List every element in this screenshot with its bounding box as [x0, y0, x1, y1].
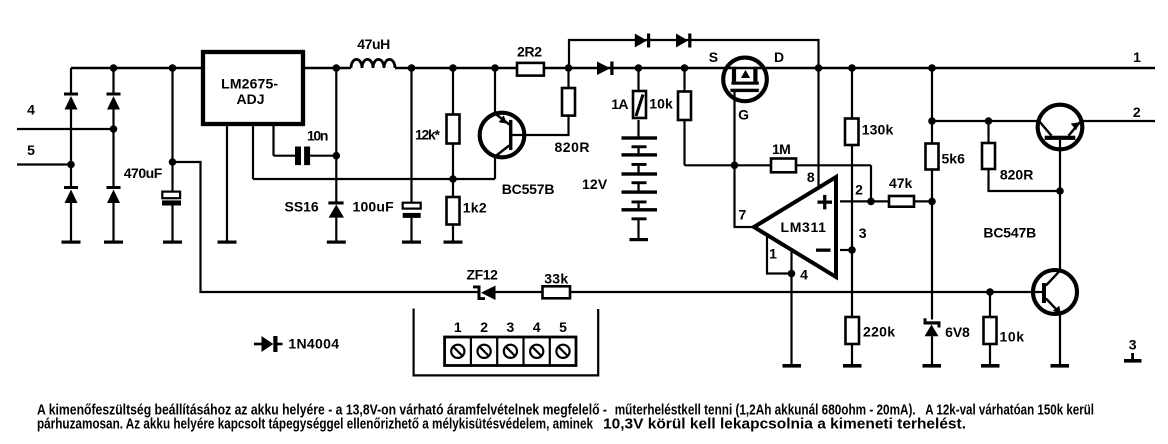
ground 470uF [163, 241, 182, 244]
resistor 12k* [447, 115, 460, 144]
wire sense line from 470uF node to bottom bus [173, 162, 478, 292]
wire BC547B bottom emitter to ground [1059, 314, 1061, 365]
svg-text:33k: 33k [544, 271, 568, 287]
wire 12k/1k2 column [452, 68, 454, 241]
wire BC547B shared base collector column [1059, 140, 1061, 271]
svg-text:1: 1 [454, 319, 462, 335]
junction node 2R2 820R bypass [565, 64, 573, 72]
resistor 1k2 [447, 197, 460, 225]
ground bridge A [62, 241, 81, 244]
wire 130k 220k column [851, 68, 853, 365]
svg-text:G: G [738, 107, 749, 123]
svg-text:47uH: 47uH [357, 36, 390, 52]
wire LM311 pin1 [767, 235, 792, 274]
wire fuse battery column [637, 68, 639, 239]
junction node terminal4 bridge [110, 125, 118, 133]
svg-text:10k: 10k [649, 96, 673, 112]
terminal block connector [445, 337, 576, 366]
svg-text:12k*: 12k* [415, 127, 441, 143]
svg-text:10k: 10k [1000, 329, 1025, 345]
svg-text:6V8: 6V8 [945, 324, 970, 340]
svg-text:47k: 47k [889, 175, 913, 191]
junction node bus 10k base [986, 288, 994, 296]
wire input terminal 5 [17, 163, 71, 165]
junction node plus input [867, 198, 875, 206]
junction node rail 470uF input [169, 64, 177, 72]
svg-text:BC557B: BC557B [502, 181, 555, 197]
resistor 220k [846, 317, 860, 344]
wire 10k gate pullup column [683, 68, 685, 165]
ground 220k [843, 364, 862, 368]
junction node output 12k [449, 64, 457, 72]
svg-text:3: 3 [859, 225, 867, 241]
svg-text:820R: 820R [1000, 167, 1034, 183]
wire output column 100uF [410, 68, 412, 241]
svg-text:2: 2 [1133, 104, 1141, 120]
resistor 10k right [984, 317, 997, 344]
resistor 5k6 [926, 144, 939, 170]
wire 820R right column [989, 121, 1061, 191]
comparator U2 LM311 [754, 177, 836, 277]
resistor 130k [845, 119, 859, 146]
series diode on rail [597, 62, 614, 76]
transistor Q1 BC557B [480, 113, 525, 158]
wire LM2675 ground pin [226, 124, 228, 241]
inductor L1 47uH [351, 59, 395, 68]
svg-text:220k: 220k [863, 324, 895, 340]
ground 10k right [981, 364, 1000, 368]
resistor 2R2 [517, 63, 544, 76]
svg-text:470uF: 470uF [124, 165, 163, 181]
wire main top rail [71, 67, 1155, 70]
bridge diode top B [107, 93, 121, 110]
svg-text:3: 3 [1129, 337, 1137, 353]
svg-text:párhuzamosan. Az akku helyére: párhuzamosan. Az akku helyére kapcsolt t… [37, 417, 594, 433]
terminal block bracket [414, 309, 599, 376]
wire gate node horizontal to plus input [685, 165, 872, 201]
ground SS16 [327, 241, 346, 244]
junction node 10k pullup [681, 64, 689, 72]
wire bridge column A [70, 68, 72, 241]
capacitor 470uF [162, 192, 181, 206]
zener diode 6V8 [924, 318, 941, 336]
ground bridge B [104, 241, 123, 244]
svg-text:100uF: 100uF [353, 199, 395, 215]
wire 820R left column and base wire [511, 68, 569, 135]
svg-text:820R: 820R [555, 139, 590, 155]
junction node terminal5 bridge [67, 161, 75, 169]
wire 470uF column [171, 68, 173, 241]
wire LM311 pin8 supply [817, 68, 819, 188]
resistor 33k [543, 286, 571, 298]
transistor Q3 BC547B top [1038, 105, 1083, 150]
wire switch node column / SS16 [335, 68, 337, 241]
junction node feedback divider [449, 175, 457, 183]
svg-text:2R2: 2R2 [517, 43, 542, 59]
wire LM311 plus input to 47k [840, 200, 932, 202]
junction node rail bridge column B [110, 64, 118, 72]
svg-text:ADJ: ADJ [237, 91, 265, 107]
svg-text:1k2: 1k2 [463, 199, 487, 215]
fuse 1A [633, 91, 646, 118]
junction node switch SS16 [333, 64, 341, 72]
wire bottom bus 33k to BC547B base [570, 291, 1042, 293]
wire input terminal 4 [17, 128, 114, 130]
transistor Q4 BC547B bottom [1033, 270, 1077, 314]
svg-text:5: 5 [559, 319, 567, 335]
junction node 10n switch [333, 152, 341, 160]
battery 12V [622, 136, 658, 220]
wire 10k right column [989, 292, 991, 365]
diode SS16 [328, 201, 344, 217]
resistor 820R right [982, 143, 995, 169]
svg-text:LM311: LM311 [781, 219, 827, 235]
junction node 820R base link [1056, 187, 1064, 195]
junction node 130k rail [848, 64, 856, 72]
svg-text:2: 2 [855, 182, 863, 198]
svg-text:SS16: SS16 [285, 199, 319, 215]
ground LM2675 pin [218, 241, 237, 244]
junction node minus input [848, 246, 856, 254]
wire bridge column B [112, 68, 114, 241]
svg-text:10,3V körül kell lekapcsolnia: 10,3V körül kell lekapcsolnia a kimeneti… [603, 417, 966, 433]
bridge diode top A [64, 93, 78, 110]
svg-text:5: 5 [27, 142, 35, 158]
wire LM311 pin4 to ground [790, 250, 792, 365]
junction node 5k6 rail [928, 64, 936, 72]
svg-text:1: 1 [1133, 49, 1141, 65]
svg-text:3: 3 [507, 319, 515, 335]
MOSFET Q2 [723, 58, 767, 102]
regulator U1 LM2675 [203, 52, 303, 124]
bypass diode 2 [676, 34, 691, 48]
wire bypass diode branch [569, 40, 819, 68]
junction node pin1 pin4 [788, 270, 796, 278]
ground 6V8 [923, 364, 942, 368]
wire LM2675 boost pin to 10n [274, 124, 296, 156]
svg-text:10n: 10n [307, 127, 328, 143]
capacitor 10n [295, 147, 310, 166]
bypass diode 1 [635, 34, 650, 48]
wire LM311 minus input stub [840, 249, 852, 251]
resistor 47k [889, 196, 914, 207]
wire collector rail to output 2 [932, 120, 1155, 122]
svg-text:130k: 130k [862, 122, 894, 138]
resistor 820R left [562, 88, 575, 116]
junction node collector rail 820R [985, 117, 993, 125]
svg-text:1: 1 [769, 246, 777, 262]
junction node fuse battery [635, 64, 643, 72]
bridge diode bottom A [64, 186, 78, 203]
ground terminal 3 [1124, 353, 1142, 363]
svg-text:4: 4 [800, 267, 808, 283]
svg-text:4: 4 [27, 101, 35, 117]
wire 10n to switch node [310, 155, 336, 157]
svg-text:1N4004: 1N4004 [288, 336, 339, 352]
junction node output BC557B emitter [491, 64, 499, 72]
bridge diode bottom B [107, 186, 121, 203]
junction node 47k 5k6 6V8 [928, 198, 936, 206]
svg-text:1M: 1M [772, 141, 791, 157]
junction node 470uF sense tap [169, 158, 177, 166]
junction node D rail [815, 64, 823, 72]
wire bottom bus ZF12 to 33k [496, 291, 543, 293]
junction node output 100uF [408, 64, 416, 72]
svg-text:LM2675-: LM2675- [221, 75, 278, 91]
ground 1k2 [444, 241, 463, 244]
svg-text:4: 4 [533, 319, 541, 335]
ground BC547B emitter [1051, 364, 1070, 368]
svg-text:8: 8 [807, 169, 815, 185]
resistor 10k gate pullup [678, 92, 691, 121]
svg-text:ZF12: ZF12 [466, 266, 498, 282]
zener diode ZF12 [473, 286, 496, 301]
wire BC557B emitter column [494, 68, 496, 114]
svg-text:1A: 1A [611, 96, 628, 112]
ground bar battery [630, 238, 649, 241]
junction node collector rail 5k6 [928, 117, 936, 125]
svg-text:D: D [774, 49, 784, 65]
junction node gate drive [731, 162, 739, 170]
wire MOSFET gate line to LM311 pin7 [735, 92, 755, 227]
svg-text:BC547B: BC547B [983, 225, 1036, 241]
ground 100uF [402, 241, 421, 244]
ground LM311 pin1 pin4 [783, 364, 802, 368]
svg-text:7: 7 [739, 206, 747, 222]
resistor 1M [771, 159, 796, 173]
svg-text:12V: 12V [582, 176, 608, 192]
capacitor 100uF [403, 203, 421, 218]
svg-text:S: S [709, 49, 718, 65]
wire 5k6 6V8 column [931, 68, 933, 365]
diode 1N4004 [254, 336, 283, 352]
wire LM2675 feedback pin to divider [253, 124, 495, 179]
svg-text:5k6: 5k6 [942, 151, 966, 167]
svg-text:2: 2 [480, 319, 488, 335]
